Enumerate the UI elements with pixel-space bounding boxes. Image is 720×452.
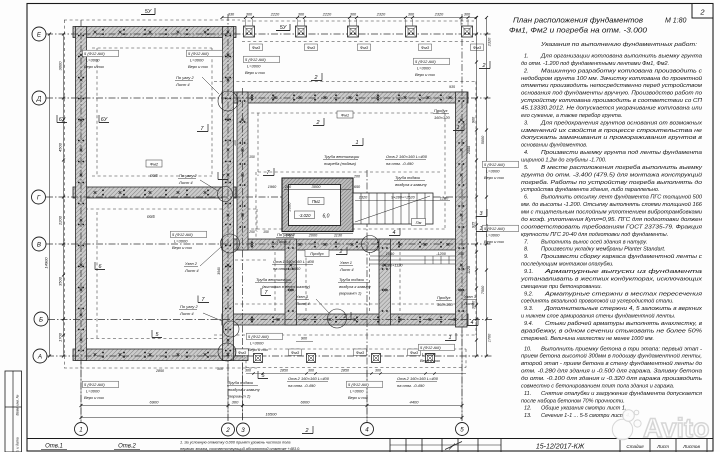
svg-text:По углу 2: По углу 2 — [179, 173, 197, 178]
svg-text:5000: 5000 — [481, 135, 485, 144]
section mark 2 — [340, 312, 351, 320]
svg-text:1700: 1700 — [58, 332, 63, 342]
axis 2 line — [227, 14, 229, 422]
svg-text:L=3000: L=3000 — [422, 352, 436, 357]
rebar label L1 — [83, 50, 119, 69]
svg-text:2000: 2000 — [467, 146, 471, 155]
svg-text:основания под фундаменты вручн: основания под фундаменты вручную. Произв… — [521, 91, 702, 97]
svg-text:3540: 3540 — [217, 267, 221, 275]
svg-text:Верх и низ: Верх и низ — [84, 395, 104, 400]
grid circle Е — [32, 27, 46, 41]
svg-text:300: 300 — [375, 369, 381, 373]
svg-text:L=3000: L=3000 — [350, 389, 364, 394]
svg-text:Отв.2: Отв.2 — [118, 444, 136, 450]
section mark 1 — [453, 123, 464, 131]
svg-text:9.3.: 9.3. — [524, 306, 533, 312]
svg-text:1.: 1. — [524, 54, 529, 60]
svg-text:1130: 1130 — [334, 234, 343, 238]
svg-text:45.13330.2012. Не допускается: 45.13330.2012. Не допускается укорачиван… — [521, 106, 702, 112]
svg-text:воздуха к камину: воздуха к камину — [395, 182, 428, 187]
footing Fm3 porch #1 — [254, 354, 263, 363]
rebar label L11 — [483, 225, 519, 244]
label produh 360x360 — [436, 295, 453, 307]
svg-text:Фм3: Фм3 — [473, 45, 482, 50]
svg-text:устройству котлована производи: устройству котлована производить в соотв… — [520, 97, 702, 104]
section mark 5 — [258, 371, 268, 379]
svg-text:300: 300 — [246, 13, 253, 17]
leader from corner ref 3 to B junction — [203, 313, 222, 321]
svg-text:соединять вязальной проволокой: соединять вязальной проволокой из углеро… — [521, 298, 674, 305]
label Produh boxed — [305, 250, 329, 257]
axis V line — [46, 243, 492, 245]
svg-text:7500: 7500 — [481, 285, 485, 294]
wall axis 5 (right exterior) — [456, 92, 468, 327]
Avito watermark — [612, 410, 709, 443]
cellar elevation -3.020 — [295, 211, 315, 219]
svg-text:3500: 3500 — [58, 276, 63, 286]
svg-text:Фм3: Фм3 — [356, 350, 365, 355]
section mark 6У — [99, 115, 109, 123]
label Fm3 — [305, 44, 318, 51]
grid circle 2 — [222, 423, 235, 436]
footing Fm3 porch #3 — [372, 354, 381, 363]
cellar Pm1 outer wall — [282, 178, 353, 232]
section mark 2 — [313, 118, 324, 126]
svg-text:на отм. -0.660: на отм. -0.660 — [273, 266, 301, 271]
label corner ref 3 — [179, 304, 198, 316]
svg-text:Указания по выполнению фундаме: Указания по выполнению фундаментных рабо… — [540, 42, 698, 48]
svg-text:погреба (подача): погреба (подача) — [324, 161, 357, 166]
svg-text:L=3000: L=3000 — [86, 58, 100, 63]
svg-text:недобором грунта 100 мм. Зачис: недобором грунта 100 мм. Зачистку котлов… — [521, 75, 702, 82]
svg-text:Для организации котлована выпо: Для организации котлована выполнить выем… — [540, 54, 702, 60]
svg-text:5 (Ф12 АIII): 5 (Ф12 АIII) — [348, 382, 369, 387]
svg-text:В: В — [37, 241, 41, 248]
axis B line — [48, 319, 492, 321]
section mark 6У — [57, 115, 67, 123]
svg-text:4500: 4500 — [58, 142, 63, 152]
wall below cellar — [285, 239, 297, 325]
svg-text:Произвести укладку мембраны Pl: Произвести укладку мембраны Planter Stan… — [541, 247, 665, 253]
section mark 2 right top — [479, 61, 490, 69]
svg-text:Узел 3: Узел 3 — [296, 294, 309, 299]
section mark 7 — [218, 172, 228, 180]
svg-text:10.: 10. — [524, 346, 532, 352]
grid circle В — [32, 237, 46, 251]
svg-text:Верх и низ: Верх и низ — [484, 175, 504, 180]
svg-text:По углу 2: По углу 2 — [180, 304, 198, 309]
svg-text:300: 300 — [245, 369, 251, 373]
svg-text:Сечения 1-1 ... 5-5 смотри лис: Сечения 1-1 ... 5-5 смотри лист 4. — [541, 413, 631, 419]
label corner ref 2 — [276, 232, 295, 244]
svg-text:3: 3 — [241, 427, 245, 434]
svg-text:5 (Ф12 АIII): 5 (Ф12 АIII) — [172, 232, 193, 237]
svg-text:основании фундаментов.: основании фундаментов. — [521, 143, 588, 149]
extra ticks left dim chain — [62, 119, 65, 122]
svg-text:Узел 3: Узел 3 — [464, 294, 477, 299]
detail circle node Uzel2 at V-2 — [221, 234, 240, 253]
svg-text:Д: Д — [36, 95, 42, 102]
svg-text:Труба подачи: Труба подачи — [395, 175, 421, 180]
top dimension chain — [222, 17, 476, 19]
svg-text:6,0: 6,0 — [323, 214, 330, 220]
section mark 1 — [352, 138, 363, 146]
svg-text:Фм2: Фм2 — [150, 162, 159, 167]
svg-text:М 1:80: М 1:80 — [665, 18, 687, 25]
svg-text:300: 300 — [232, 400, 239, 405]
svg-text:Лист 4: Лист 4 — [339, 267, 354, 272]
rebar label L4 — [414, 58, 450, 77]
svg-text:Продух: Продух — [434, 108, 449, 113]
svg-text:2: 2 — [225, 427, 230, 434]
svg-text:Выполнить отсыпку лент фундаме: Выполнить отсыпку лент фундамента ПГС то… — [541, 194, 703, 201]
svg-text:Верх и низ: Верх и низ — [188, 64, 208, 69]
svg-text:250: 250 — [248, 230, 255, 234]
svg-text:6900: 6900 — [150, 400, 160, 405]
svg-text:на отм. -0.490: на отм. -0.490 — [288, 383, 316, 388]
rebar label L3 — [244, 56, 280, 75]
landing box Pm — [412, 219, 426, 226]
svg-text:Отв.2 160×160 L=400: Отв.2 160×160 L=400 — [397, 376, 439, 381]
svg-text:900: 900 — [301, 337, 308, 341]
svg-text:3000: 3000 — [312, 184, 322, 189]
svg-text:воздуха к камину: воздуха к камину — [228, 387, 261, 392]
svg-text:Верх и низ: Верх и низ — [484, 239, 504, 244]
section mark 2 — [302, 426, 313, 434]
svg-text:2850: 2850 — [155, 369, 164, 373]
svg-text:150: 150 — [249, 155, 255, 159]
svg-text:L=3000: L=3000 — [486, 169, 500, 174]
label Fm3 — [471, 44, 484, 51]
svg-text:Лист 4: Лист 4 — [179, 311, 194, 316]
excavation dashed outline left block — [64, 20, 476, 368]
detail circle node Uzel3 at B axis — [328, 309, 347, 328]
svg-text:300: 300 — [350, 13, 357, 17]
svg-text:Лист 4: Лист 4 — [276, 239, 291, 244]
grid circle Б — [34, 312, 48, 326]
rebar label L5 — [483, 161, 519, 180]
svg-text:L=3000: L=3000 — [190, 58, 204, 63]
corner ref label at G — [178, 173, 218, 191]
section mark 6 — [95, 262, 105, 270]
svg-text:L=3000: L=3000 — [247, 64, 261, 69]
svg-text:6.: 6. — [524, 195, 529, 201]
axis 3 line — [242, 88, 244, 422]
svg-text:Фм3: Фм3 — [421, 45, 430, 50]
svg-text:925: 925 — [472, 221, 476, 228]
svg-text:8.: 8. — [524, 247, 529, 253]
svg-text:Лист 4: Лист 4 — [184, 268, 199, 273]
svg-text:-3.020: -3.020 — [299, 213, 312, 218]
svg-text:200: 200 — [284, 185, 292, 189]
svg-text:смещение при бетонировании.: смещение при бетонировании. — [521, 284, 602, 290]
axis E line — [46, 33, 492, 35]
svg-text:крупности ПГС 20-40 для подгот: крупности ПГС 20-40 для подготовки под ф… — [521, 232, 668, 238]
svg-text:2.: 2. — [523, 68, 529, 74]
left stamp boxes — [5, 371, 22, 452]
svg-text:4: 4 — [365, 426, 369, 433]
svg-text:5 (Ф12 АIII): 5 (Ф12 АIII) — [84, 51, 105, 56]
svg-text:Труба подачи: Труба подачи — [228, 380, 254, 385]
svg-text:Для предохранения грунтов осно: Для предохранения грунтов основания от в… — [540, 120, 702, 126]
title block cells — [389, 439, 391, 452]
section mark 5 — [152, 330, 162, 338]
svg-text:Подп. и дата: Подп. и дата — [16, 437, 20, 452]
svg-text:Отв.1 160×160 L=400: Отв.1 160×160 L=400 — [273, 259, 315, 264]
svg-text:300: 300 — [217, 367, 223, 371]
label opening Otv2 bottom right — [396, 376, 439, 388]
svg-text:его сужение, а также перебор г: его сужение, а также перебор грунта. — [521, 113, 622, 119]
axis G line — [46, 196, 468, 198]
svg-text:L=3000: L=3000 — [174, 239, 188, 244]
svg-text:Продух: Продух — [437, 295, 452, 300]
wall axis 2 (central) — [223, 27, 234, 361]
wall axis 3 (corridor) — [237, 92, 248, 250]
svg-text:устанавливать в жестких кондук: устанавливать в жестких кондукторах, иск… — [520, 276, 703, 282]
rebar label L8 — [83, 381, 119, 400]
axis D line — [46, 97, 492, 99]
svg-text:150: 150 — [263, 230, 269, 234]
detail circle at B-2 junction — [223, 321, 239, 337]
svg-text:300: 300 — [408, 13, 415, 17]
svg-text:L=3000: L=3000 — [86, 389, 100, 394]
svg-text:Фм1, Фм2 и погреба на отм. -3.: Фм1, Фм2 и погреба на отм. -3.000 — [509, 27, 647, 35]
label opening Otv1 — [272, 259, 315, 271]
svg-text:Дополнительные стержни 4, 5 за: Дополнительные стержни 4, 5 заложить в в… — [544, 306, 702, 312]
section mark 1 — [476, 224, 487, 232]
label Fm3 porch — [236, 349, 249, 356]
label Fm3 porch — [408, 349, 421, 356]
svg-text:2000: 2000 — [287, 202, 292, 213]
label Fm3 — [419, 44, 432, 51]
svg-text:совместно с бетонированием пли: совместно с бетонированием плит пола зда… — [521, 383, 675, 389]
svg-text:1960: 1960 — [268, 185, 277, 189]
svg-text:2: 2 — [699, 8, 705, 17]
svg-text:1040: 1040 — [386, 252, 395, 256]
svg-text:2320: 2320 — [488, 37, 492, 47]
svg-text:2850: 2850 — [279, 369, 288, 373]
svg-text:9.4.: 9.4. — [524, 321, 533, 327]
svg-text:3000: 3000 — [58, 61, 63, 71]
svg-text:L=3000: L=3000 — [486, 233, 500, 238]
footing Fm3 top #2 — [296, 26, 307, 37]
svg-text:5 (Ф12 АIII): 5 (Ф12 АIII) — [420, 345, 441, 350]
svg-text:на отм. -0.490: на отм. -0.490 — [397, 383, 425, 388]
svg-text:Фм3: Фм3 — [307, 45, 316, 50]
axis 5 line — [461, 14, 463, 422]
svg-text:(вариант 1): (вариант 1) — [339, 291, 362, 296]
svg-text:1. За условную отметку 0,00: 1. За условную отметку 0,000 принят уров… — [180, 440, 291, 444]
svg-text:Верх и низ: Верх и низ — [172, 245, 192, 250]
label Fm1 — [337, 111, 353, 118]
svg-text:по5: по5 — [150, 173, 158, 178]
svg-text:Верх и низ: Верх и низ — [245, 70, 265, 75]
svg-text:Верх и низ: Верх и низ — [415, 72, 435, 77]
detail circle node detail at D-2 — [218, 91, 238, 111]
svg-text:2220: 2220 — [322, 13, 332, 17]
svg-text:первого этажа, соответствующий: первого этажа, соответствующий абсолютно… — [180, 447, 300, 451]
svg-text:L=3000: L=3000 — [417, 66, 431, 71]
label Fm3 porch — [354, 349, 367, 356]
rebar label L9 — [347, 381, 383, 400]
svg-text:935: 935 — [449, 85, 455, 89]
label Fm2 — [146, 160, 162, 167]
svg-text:16500: 16500 — [265, 412, 277, 417]
svg-text:последующим монтажом опалубки.: последующим монтажом опалубки. — [521, 262, 614, 268]
axis A line — [47, 355, 492, 357]
footing Fm3 top #3 — [348, 26, 359, 37]
label air supply v2 — [227, 380, 261, 399]
grid circle 4 — [361, 423, 374, 436]
svg-text:2320: 2320 — [434, 13, 444, 17]
svg-text:300: 300 — [308, 369, 314, 373]
label opening Otv2 bottom left — [287, 376, 330, 388]
leader lines — [202, 77, 219, 94]
svg-text:330: 330 — [228, 13, 235, 17]
section mark 3 — [476, 209, 487, 217]
wall axis D (right part) — [222, 92, 468, 103]
svg-text:Пм1: Пм1 — [312, 199, 320, 204]
label node ref Uzel3 — [295, 294, 310, 306]
svg-text:Узел 1: Узел 1 — [340, 260, 352, 265]
svg-text:900: 900 — [472, 116, 476, 123]
wall axis B (right part) — [222, 314, 468, 325]
left dimension chain inner — [63, 34, 65, 356]
svg-text:вразбежку, в одном сечении сты: вразбежку, в одном сечении стыковать не … — [521, 328, 702, 334]
instruction text block — [520, 54, 704, 420]
svg-text:Труба подачи: Труба подачи — [339, 277, 365, 282]
section mark 4 — [467, 318, 478, 326]
svg-text:160×320: 160×320 — [434, 115, 450, 120]
svg-text:200: 200 — [353, 175, 360, 179]
extra ticks right dim chains — [475, 61, 478, 64]
label vent pipe extract — [255, 277, 311, 289]
section mark 7 near D-2 — [197, 124, 208, 132]
svg-text:5 (Ф12 АIII): 5 (Ф12 АIII) — [484, 162, 505, 167]
section mark 7 — [263, 168, 274, 176]
svg-text:1120: 1120 — [467, 266, 471, 274]
svg-text:Отв.2 160×160 L=400: Отв.2 160×160 L=400 — [288, 376, 330, 381]
svg-text:Avito: Avito — [643, 413, 710, 443]
svg-text:погреба. Работы по устройству: погреба. Работы по устройству погреба вы… — [521, 179, 702, 186]
grid circle 5 — [456, 423, 469, 436]
svg-text:Верх и низ: Верх и низ — [248, 347, 268, 352]
svg-text:Снятие опалубки и загружение ф: Снятие опалубки и загружение фундамента … — [541, 391, 702, 397]
bottom dimension chain — [81, 405, 462, 407]
label air supply v1 — [338, 277, 372, 296]
svg-text:Труба вентиляции: Труба вентиляции — [324, 154, 360, 159]
svg-text:2220: 2220 — [270, 13, 280, 17]
svg-text:до коэф. уплотнения Купл=0,95.: до коэф. уплотнения Купл=0,95. ПГС для п… — [521, 217, 702, 223]
svg-text:300: 300 — [298, 13, 305, 17]
svg-text:Фм1: Фм1 — [341, 113, 349, 118]
svg-text:4.: 4. — [524, 150, 529, 156]
svg-text:Выполнить приемку бетона в три: Выполнить приемку бетона в три этапа: пе… — [541, 345, 702, 352]
cellar label Pm1 — [308, 198, 324, 205]
svg-text:Верх и низ: Верх и низ — [348, 395, 368, 400]
svg-text:По углу 2: По углу 2 — [277, 232, 295, 237]
svg-text:Верх и низ: Верх и низ — [84, 64, 104, 69]
svg-text:по5: по5 — [147, 214, 155, 219]
label Fm3 — [358, 44, 371, 51]
svg-text:Арматурные выпуски и: Арматурные выпуски из фундамента — [543, 269, 702, 275]
svg-text:4×280+1120: 4×280+1120 — [381, 264, 403, 268]
exterior steps right — [370, 255, 455, 257]
grid circle Д — [32, 91, 46, 105]
svg-text:Стадия: Стадия — [626, 444, 644, 449]
svg-text:(вытяжка в вент.шахту): (вытяжка в вент.шахту) — [262, 284, 311, 289]
rebar label L7 — [247, 333, 283, 352]
svg-text:Пм: Пм — [416, 220, 422, 225]
label vent pipe cellar — [323, 154, 360, 166]
svg-text:2000: 2000 — [308, 234, 318, 238]
svg-text:мм. до высоты -1.200. Отсыпку: мм. до высоты -1.200. Отсыпку выполнять … — [521, 201, 703, 208]
label node ref Uzel3 right — [463, 294, 478, 306]
svg-text:650: 650 — [354, 185, 361, 189]
wall axis E (top) — [73, 27, 236, 38]
grid circle Г — [32, 190, 46, 204]
section mark 7 — [261, 288, 271, 296]
wall axis A (bottom left) — [73, 349, 248, 361]
svg-text:Листов: Листов — [682, 444, 700, 449]
svg-text:Труба вентиляции: Труба вентиляции — [256, 277, 292, 282]
svg-text:4400: 4400 — [410, 400, 420, 405]
svg-text:допускать замачивания: допускать замачивания и промораживания г… — [521, 135, 702, 141]
svg-text:и нижнем слое армирования стен: и нижнем слое армирования стены фундамен… — [521, 313, 675, 320]
grid circle А — [33, 349, 47, 363]
svg-text:Отв.2 160×160 L=400: Отв.2 160×160 L=400 — [386, 154, 428, 159]
svg-text:Произвести выемку грунта под л: Произвести выемку грунта под ленты фунда… — [541, 150, 702, 156]
wall rebar X marks — [80, 31, 463, 356]
section mark 1 — [445, 333, 456, 341]
svg-text:14900: 14900 — [44, 257, 49, 269]
svg-text:Фм3: Фм3 — [291, 350, 300, 355]
svg-text:до отм. -1.200 под фундаментны: до отм. -1.200 под фундаментными лентами… — [521, 61, 669, 67]
svg-text:5 (Ф12 АIII): 5 (Ф12 АIII) — [248, 334, 269, 339]
footing Fm3 top #4 — [406, 26, 417, 37]
signature squiggle — [445, 442, 462, 450]
wall between V-B — [379, 239, 391, 325]
svg-text:6000: 6000 — [301, 400, 311, 405]
svg-text:5 (Ф12 АIII): 5 (Ф12 АIII) — [188, 51, 209, 56]
svg-text:Арматурные стержни в мес: Арматурные стержни в местах пересечения — [544, 291, 702, 297]
svg-text:Взам. инв. №: Взам. инв. № — [16, 394, 20, 415]
wall axis G — [73, 187, 236, 198]
svg-text:L=3000: L=3000 — [250, 341, 264, 346]
svg-text:Лист 4: Лист 4 — [295, 301, 310, 306]
label Fm3 porch — [289, 349, 302, 356]
wall axis 1 (left exterior) — [76, 27, 87, 361]
svg-text:прием бетона высотой 300мм в п: прием бетона высотой 300мм в подошву фун… — [521, 353, 702, 360]
stairs dim row — [355, 200, 450, 202]
svg-text:воздуха к камину: воздуха к камину — [339, 284, 372, 289]
svg-text:300: 300 — [464, 13, 471, 17]
svg-text:Лист: Лист — [656, 444, 669, 449]
axis 1 line — [80, 20, 82, 422]
label air supply pipe — [394, 175, 428, 187]
svg-text:5 (Ф12 АIII): 5 (Ф12 АIII) — [245, 57, 266, 62]
svg-text:мм с тщательным послойным упло: мм с тщательным послойным уплотнением ви… — [521, 209, 702, 216]
svg-text:Общие указания смотри лист 1.: Общие указания смотри лист 1. — [541, 406, 626, 412]
footing Fm3 porch #4 — [426, 354, 435, 363]
svg-text:1700: 1700 — [488, 333, 492, 342]
svg-text:360×360: 360×360 — [437, 302, 453, 307]
svg-text:Фм3: Фм3 — [410, 350, 419, 355]
label opening Otv2 top — [385, 154, 428, 166]
label produh 160x320 — [433, 108, 450, 120]
svg-text:11.: 11. — [524, 391, 531, 397]
svg-text:100: 100 — [233, 140, 237, 146]
